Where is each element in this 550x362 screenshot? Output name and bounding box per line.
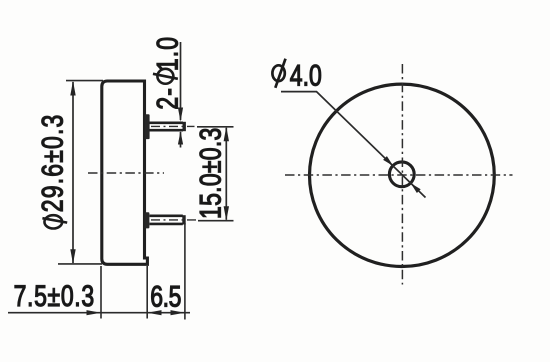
label phi29.6±0.3 (rotated)	[36, 113, 69, 228]
phi symbol of 29.6 label	[44, 215, 62, 228]
label phi4.0	[272, 59, 321, 92]
front view outer circle	[310, 84, 495, 266]
dimension 2-phi1.0 leader line upper segment with down arrow	[180, 42, 182, 120]
dimension 15.0 arrow up	[224, 127, 229, 142]
dimension phi 29.6 bottom extension line	[58, 263, 102, 265]
svg-text:2-: 2-	[151, 87, 184, 110]
pin P1 tip cap	[182, 122, 185, 131]
svg-text:29.6±0.3: 29.6±0.3	[36, 113, 69, 212]
svg-text:6.5: 6.5	[150, 280, 181, 313]
phi symbol of 4.0 label	[272, 65, 284, 81]
pin P1 center line	[151, 125, 195, 127]
svg-text:7.5±0.3: 7.5±0.3	[14, 279, 95, 312]
pin P2 (bottom lead) base flange	[144, 212, 149, 228]
body horizontal center line	[88, 172, 164, 174]
pin P2 tip cap	[182, 215, 185, 224]
dimension phi 29.6 top extension line	[66, 80, 103, 82]
leader line for phi4.0	[281, 92, 426, 198]
dimension 15.0 arrow down	[224, 206, 229, 221]
front view horizontal center line	[285, 174, 513, 176]
svg-text:15.0±0.3: 15.0±0.3	[194, 127, 227, 219]
front view center hole	[389, 162, 414, 187]
pin P2 (bottom lead) outline	[150, 216, 183, 224]
bottom extension line at body left	[100, 266, 102, 319]
label 2-phi1.0 (rotated)	[151, 36, 184, 110]
pin P2 center line	[151, 219, 200, 221]
dimension 6.5 right arrow (tip at pin-tip extension)	[171, 310, 185, 315]
leader arrow at hole upper-left edge (points down-right)	[383, 156, 393, 166]
front view vertical center line	[401, 64, 403, 285]
dimension phi 29.6 dimension line	[72, 82, 74, 263]
svg-text:4.0: 4.0	[290, 59, 322, 92]
dimension 15.0 dimension line	[225, 128, 227, 220]
bottom extension line at body right flange	[146, 266, 148, 319]
dimension 6.5 left arrow (tip at flange extension)	[147, 310, 161, 315]
dimension 15.0 top extension line	[197, 126, 234, 128]
bottom extension line at pin tip	[184, 223, 186, 320]
label 15.0±0.3 (rotated)	[194, 127, 227, 219]
dimension 15.0 bottom extension line	[198, 220, 234, 222]
buzzer body (side view, with bottom-right flange step)	[102, 81, 148, 264]
pin P1 (top lead) outline	[150, 123, 184, 130]
dimension phi 29.6 arrow down	[70, 249, 75, 264]
pin P1 (top lead) base flange	[145, 114, 150, 139]
dimension 7.5 arrow (points right at body-left extension)	[87, 310, 102, 315]
leader arrow at hole lower-right edge (points up-left)	[411, 183, 421, 193]
dimension phi 29.6 arrow up	[70, 81, 75, 96]
phi symbol of 2-phi1.0 label	[157, 69, 173, 84]
bottom dimension line	[8, 312, 190, 314]
dimension 2-phi1.0 leader line lower segment with up arrow	[180, 132, 182, 148]
svg-text:1.0: 1.0	[151, 36, 184, 71]
